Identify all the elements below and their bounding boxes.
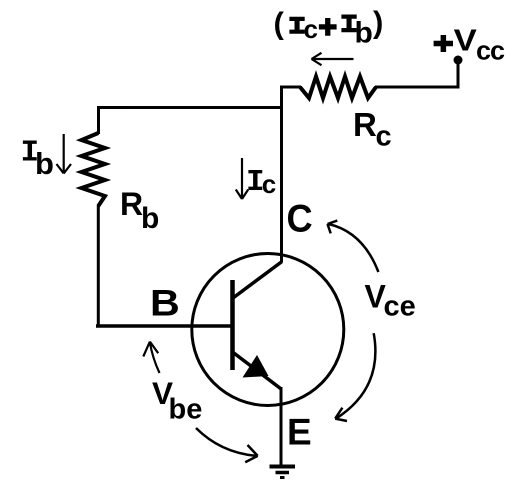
svg-text:R: R: [353, 106, 377, 143]
wire emitter vertical: [280, 387, 283, 466]
svg-text:V: V: [454, 22, 477, 57]
transistor collector diagonal: [233, 262, 282, 299]
svg-text:be: be: [169, 394, 203, 426]
wire Rb bottom lead: [97, 205, 100, 327]
transistor Q1 circle: [192, 254, 344, 406]
Vcc terminal dot: [454, 56, 463, 65]
label Vce: [365, 279, 416, 323]
svg-text:b: b: [141, 202, 159, 235]
svg-text:C: C: [287, 196, 313, 239]
svg-text:c: c: [376, 121, 392, 153]
svg-text:cc: cc: [476, 35, 505, 65]
svg-text:(: (: [274, 6, 285, 41]
current arrow Ib (down): [57, 134, 72, 173]
ground bar 1: [270, 465, 296, 469]
label Ib: [21, 136, 54, 182]
Vbe up arrow toward B: [143, 342, 159, 373]
label (Ic+Ib): [274, 5, 384, 50]
resistor Rb: [82, 133, 106, 206]
label Rb: [120, 186, 159, 235]
Vce lower arc toward E: [335, 333, 375, 421]
current arrow (Ic+Ib) pointing left: [312, 53, 354, 65]
resistor Rc: [300, 77, 376, 99]
transistor emitter diagonal: [233, 352, 281, 389]
label Vbe: [152, 375, 202, 426]
svg-text:ce: ce: [384, 291, 416, 323]
ground bar 3: [280, 476, 285, 479]
wire top-left horizontal (base net to collector column): [97, 106, 281, 109]
label Rc: [353, 106, 392, 153]
Vbe lower arrow toward ground: [196, 428, 258, 462]
svg-text:b: b: [355, 17, 373, 50]
wire Rc left lead: [280, 86, 301, 89]
label Ic: [246, 165, 276, 200]
wire base: [96, 324, 232, 328]
svg-text:): ): [373, 5, 383, 40]
svg-text:c: c: [304, 14, 318, 44]
svg-text:E: E: [287, 412, 312, 453]
svg-text:c: c: [262, 169, 276, 199]
Vce upper arc toward C: [328, 221, 379, 272]
svg-text:b: b: [35, 146, 54, 181]
ground bar 2: [276, 471, 290, 475]
current arrow Ic (down): [236, 158, 248, 199]
svg-text:B: B: [150, 282, 180, 324]
transistor emitter arrowhead: [243, 355, 269, 378]
wire Rc right lead to Vcc: [375, 61, 458, 87]
label +Vcc: [434, 22, 505, 65]
svg-text:R: R: [120, 186, 143, 222]
transistor base bar: [230, 280, 235, 370]
wire Rb top lead: [97, 106, 100, 134]
wire collector vertical: [280, 86, 283, 263]
